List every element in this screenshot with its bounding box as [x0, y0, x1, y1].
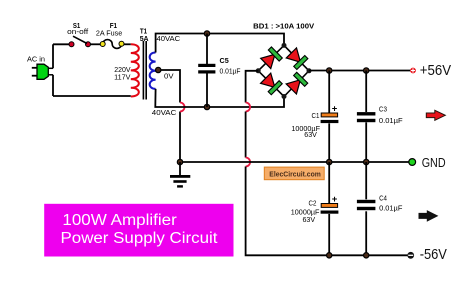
wire AC bottom from plug to transformer primary [53, 95, 131, 97]
svg-text:63V: 63V [304, 130, 317, 139]
node C1 top [327, 68, 332, 73]
switch S1 lever [73, 36, 87, 43]
title box 100W Amplifier Power Supply Circuit [44, 204, 233, 257]
terminal GND [409, 159, 416, 166]
svg-text:2A Fuse: 2A Fuse [96, 29, 122, 38]
svg-text:40VAC: 40VAC [152, 108, 177, 117]
ground symbol [170, 162, 190, 188]
svg-text:+56V: +56V [420, 63, 452, 79]
wire AC left vertical lower (plug bottom terminal down) [52, 75, 54, 96]
capacitor C4 [357, 162, 376, 255]
node bridge bottom [282, 94, 287, 99]
wire ground rail [180, 161, 409, 163]
transformer core [143, 41, 146, 100]
wire +56V rail [309, 70, 410, 72]
wire secondary top to top rail [156, 34, 284, 53]
svg-text:+: + [332, 194, 338, 205]
node C2 bottom [327, 253, 332, 258]
wire 0V tap [158, 70, 180, 103]
node C4 bottom [364, 253, 369, 258]
svg-text:+: + [332, 103, 338, 114]
svg-text:-56V: -56V [420, 247, 448, 263]
wire negative drop middle [245, 112, 247, 158]
svg-text:BD1 : >10A 100V: BD1 : >10A 100V [253, 22, 314, 31]
svg-text:C2: C2 [309, 199, 317, 208]
svg-text:C4: C4 [379, 194, 387, 203]
svg-text:0.01µF: 0.01µF [379, 116, 403, 125]
diode D1 top-left (triangle) [261, 49, 280, 68]
arrow output positive (red) [426, 110, 445, 120]
wire negative drop to -56V rail [246, 167, 408, 256]
svg-text:C3: C3 [379, 104, 387, 113]
svg-text:C1: C1 [312, 111, 320, 120]
node C2 top [327, 159, 332, 164]
junction node top C5 [204, 31, 209, 36]
transformer T1 secondary coil [150, 53, 156, 89]
node bridge left [256, 68, 261, 73]
watermark ElecCircuit.com [264, 167, 324, 180]
fuse F1 [100, 40, 124, 49]
svg-text:GND: GND [422, 156, 446, 170]
wire bridge left corner to negative drop [246, 71, 259, 103]
node bridge top [282, 43, 287, 48]
switch S1 contacts [69, 42, 91, 47]
svg-text:5A: 5A [140, 34, 149, 43]
junction node C5 bottom [204, 104, 209, 109]
wire AC left vertical upper (plug top terminal up) [52, 44, 54, 68]
node ground junction [177, 159, 182, 164]
svg-text:0.01µF: 0.01µF [379, 204, 403, 213]
capacitor C1 electrolytic [321, 71, 339, 163]
diode D3 cathode bar [268, 81, 282, 95]
hop 0V line over 40VAC wire [180, 103, 185, 112]
svg-text:ElecCircuit.com: ElecCircuit.com [269, 170, 321, 179]
svg-text:63V: 63V [303, 215, 316, 224]
capacitor C5 [198, 34, 215, 108]
svg-text:0.01µF: 0.01µF [220, 66, 242, 75]
diode D3 bottom-left (triangle) [261, 73, 280, 92]
svg-text:C5: C5 [220, 56, 229, 65]
bridge BD1 diamond wires [258, 45, 309, 96]
hop negative drop over 40VAC wire [246, 103, 251, 112]
diode D4 bottom-right (triangle) [286, 75, 305, 94]
diode D4 cathode bar [294, 72, 308, 86]
wire AC top from plug to switch [53, 43, 69, 45]
svg-text:AC in: AC in [27, 55, 45, 64]
terminal -56V [407, 252, 414, 259]
capacitor C2 electrolytic [321, 162, 339, 255]
capacitor C3 [357, 71, 376, 163]
transformer T1 primary coil [131, 44, 139, 96]
terminal +56V [410, 68, 416, 74]
wire secondary bottom 40VAC [155, 89, 284, 107]
wire 0V tap lower segment to ground junction [179, 112, 181, 163]
hop negative drop over ground rail [246, 158, 251, 167]
wire from fuse to transformer primary [124, 43, 131, 45]
svg-text:on-off: on-off [67, 27, 88, 36]
svg-text:0V: 0V [164, 71, 174, 80]
diode D2 top-right (triangle) [286, 48, 305, 67]
diode D1 cathode bar [268, 47, 282, 61]
arrow output negative (black) [419, 211, 437, 221]
svg-text:100W Amplifier: 100W Amplifier [62, 212, 176, 229]
node bridge right [307, 68, 312, 73]
svg-text:Power Supply Circuit: Power Supply Circuit [61, 230, 219, 247]
diode D2 cathode bar [294, 55, 308, 69]
svg-text:117V: 117V [114, 72, 130, 81]
node 0V tap [156, 67, 161, 72]
wire between switch and fuse [91, 43, 101, 45]
AC plug body [32, 64, 53, 79]
svg-text:40VAC: 40VAC [157, 34, 181, 43]
node C4 top [364, 159, 369, 164]
node C3 top [364, 68, 369, 73]
